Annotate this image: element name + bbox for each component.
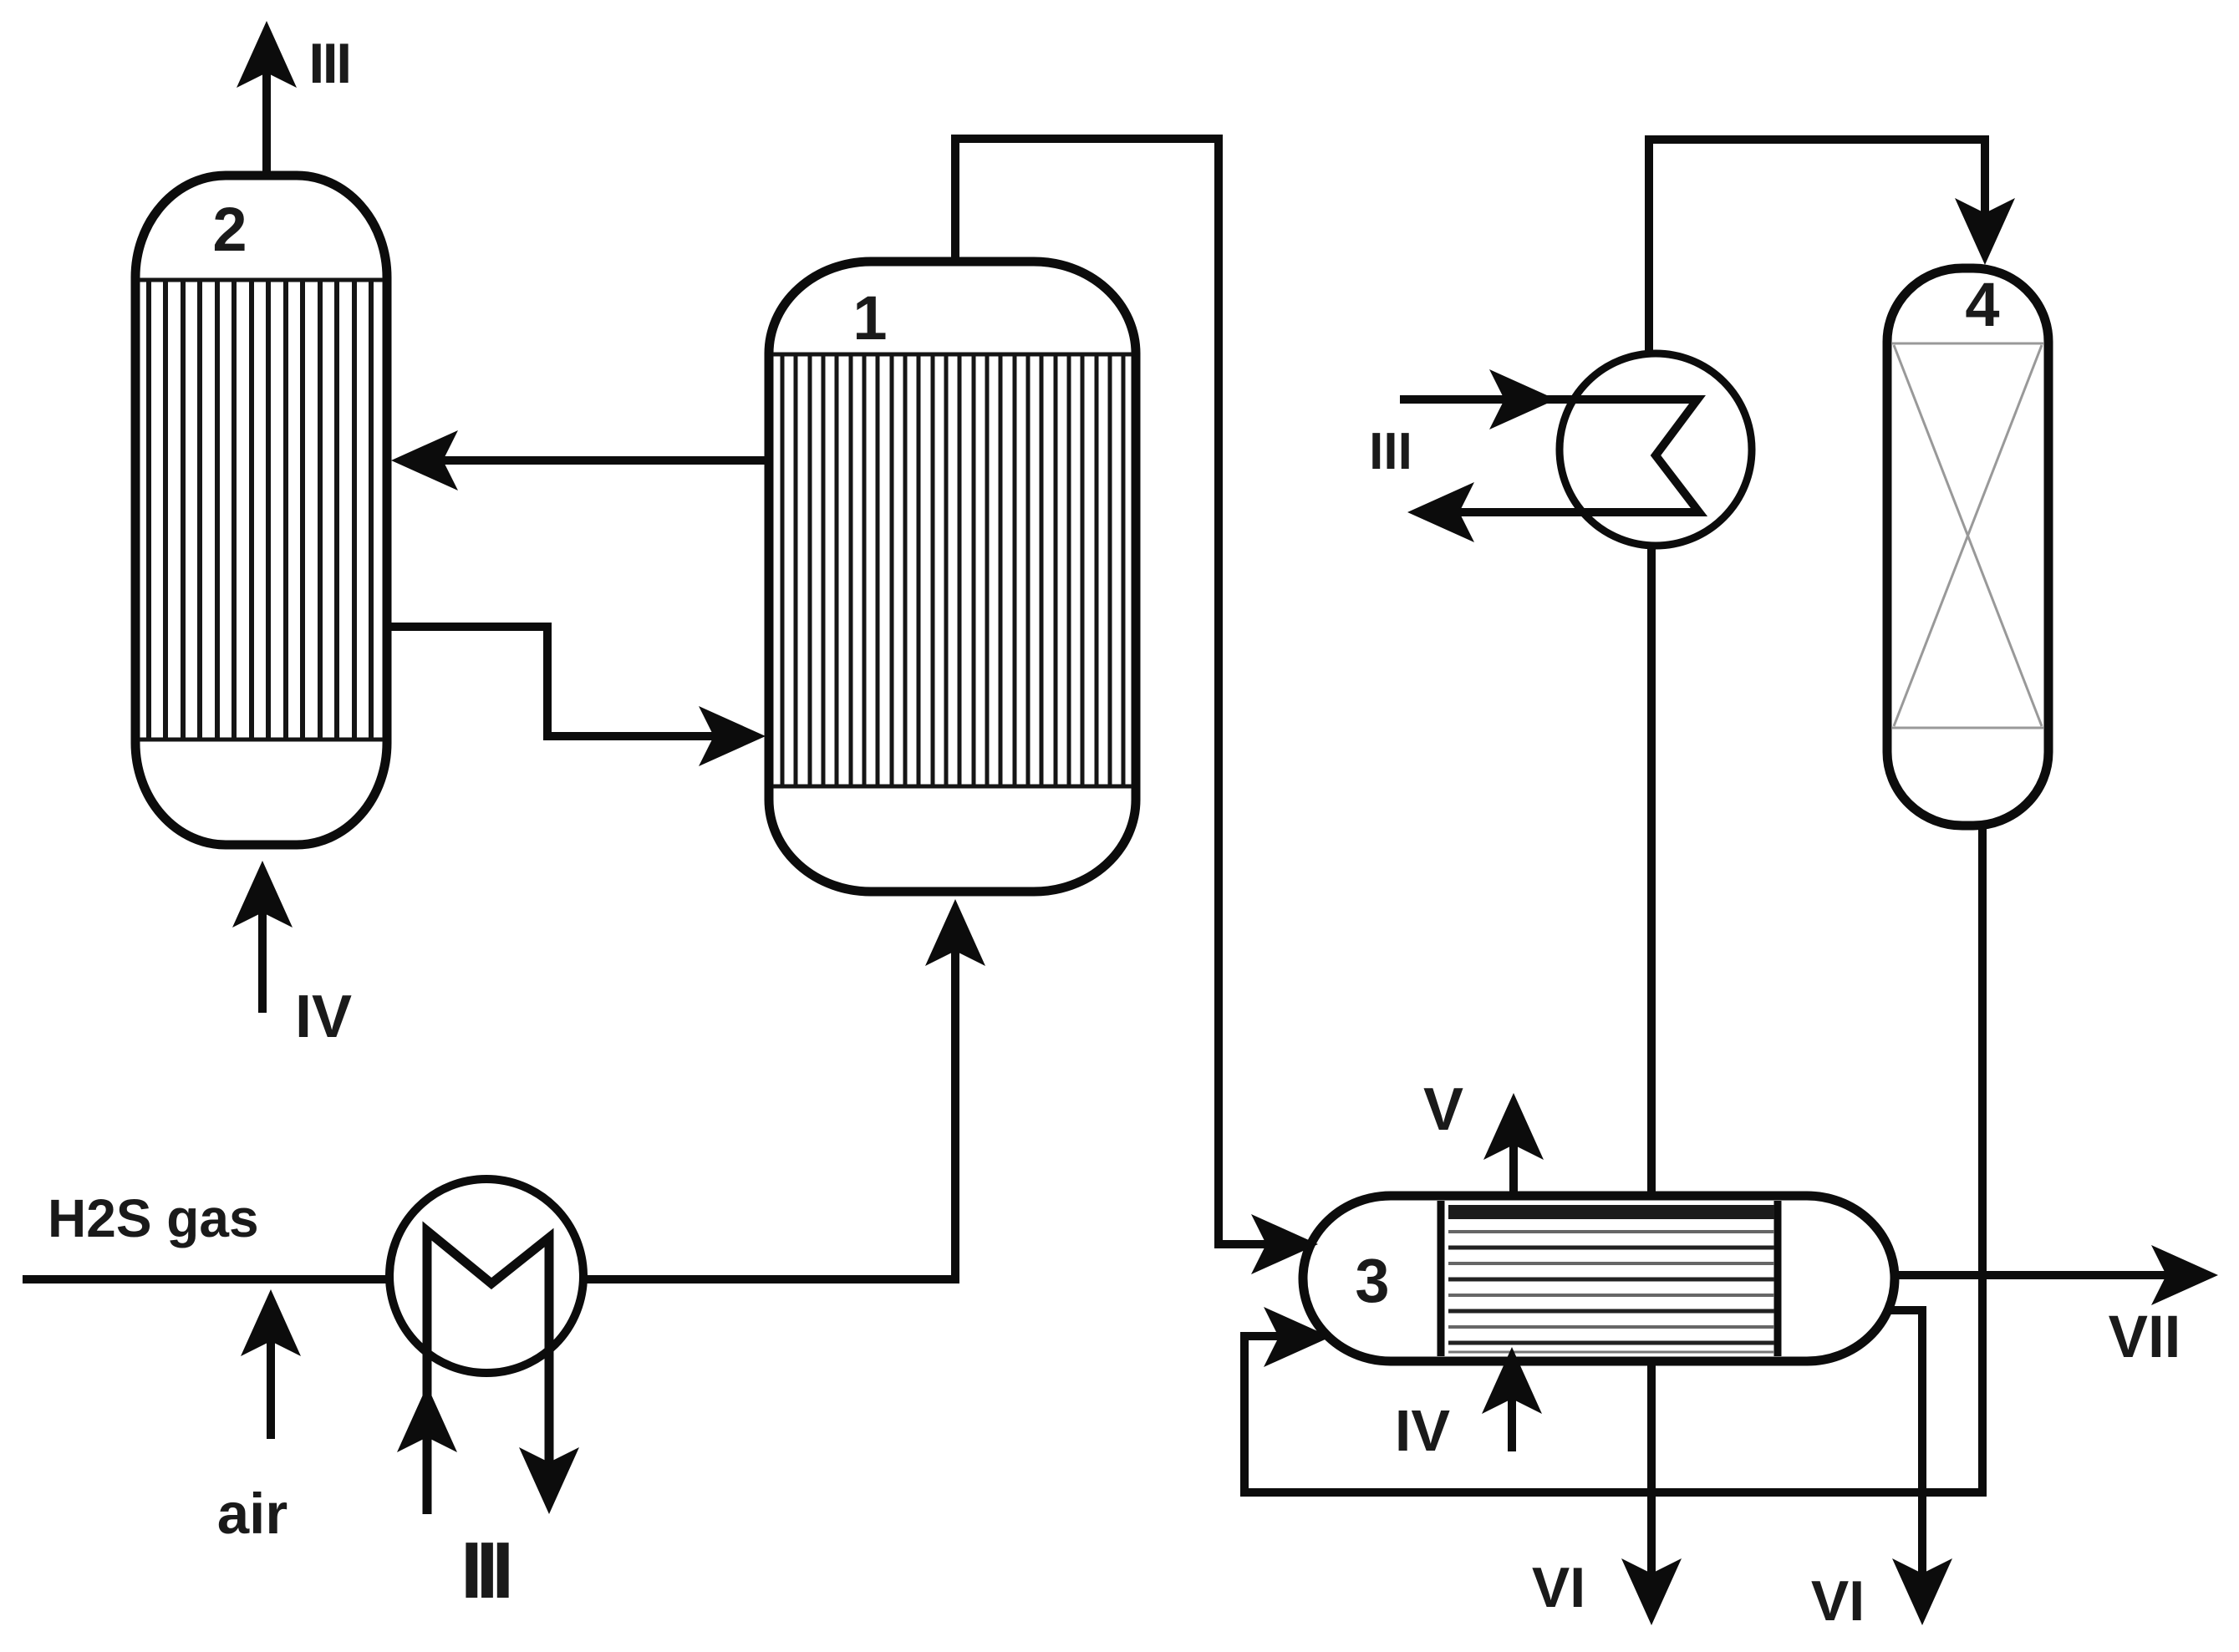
wire: vessel4 bottom loop to vessel3 lower-left inlet	[1244, 827, 1982, 1492]
wire: vessel3 right outlet VII	[1890, 1271, 2201, 1279]
wire: III into condenser	[1489, 369, 1556, 430]
heater M-element with III in/out arrows	[427, 1231, 549, 1514]
vessel3 tube hatch	[1448, 1205, 1774, 1219]
vessel 3	[1303, 1196, 1895, 1361]
wire: vessel1 top to right downcomer into vessel3	[955, 139, 1301, 1244]
svg-text:1: 1	[852, 283, 887, 353]
heater circle (H2S burner/heater)	[389, 1179, 583, 1373]
wire: condenser top over to vessel4 inlet	[1649, 140, 1985, 355]
svg-text:4: 4	[1965, 270, 1999, 339]
svg-text:III: III	[461, 1526, 509, 1615]
wire: IV into vessel3 bottom	[1508, 1364, 1516, 1451]
svg-text:III: III	[1369, 423, 1412, 480]
svg-text:IV: IV	[1395, 1398, 1450, 1463]
svg-text:VI: VI	[1532, 1556, 1585, 1619]
svg-text:2: 2	[212, 195, 247, 264]
svg-text:H2S gas: H2S gas	[48, 1188, 259, 1248]
vessel 1	[769, 262, 1136, 892]
svg-text:VI: VI	[1811, 1569, 1865, 1633]
wire: H2S gas feed line (passes behind heater circle)	[23, 916, 955, 1279]
svg-text:3: 3	[1355, 1246, 1389, 1315]
svg-text:IV: IV	[295, 984, 352, 1050]
condenser zigzag element	[1400, 399, 1699, 512]
wire: III out of condenser	[1407, 482, 1474, 542]
wire: vessel2 lower outlet to vessel1 inlet	[383, 627, 745, 736]
wire: condenser bottom down to VI left (passes behind vessel 3)	[1647, 543, 1656, 1609]
wire: vessel1 to vessel2 upper inlet	[408, 456, 769, 465]
svg-text:V: V	[1423, 1076, 1463, 1143]
wire: IV into vessel2 bottom	[258, 877, 267, 1013]
wire: vessel3 right bottom to VI right	[1890, 1310, 1922, 1609]
svg-text:air: air	[217, 1482, 288, 1546]
svg-text:III: III	[308, 32, 349, 95]
wire: air inlet arrow	[267, 1306, 275, 1439]
wire: vessel2 top outlet III	[262, 38, 271, 177]
vessel 2	[135, 175, 387, 845]
wire: vessel3 top vent V	[1509, 1110, 1518, 1197]
vessel 4	[1887, 268, 2048, 826]
svg-text:VII: VII	[2109, 1304, 2181, 1370]
condenser circle (top right)	[1560, 353, 1752, 546]
